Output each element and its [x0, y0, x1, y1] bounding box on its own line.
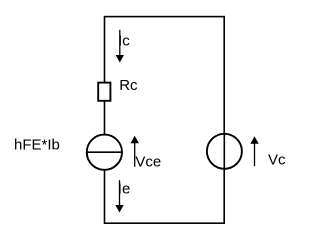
svg-text:hFE*Ib: hFE*Ib — [14, 136, 60, 153]
svg-text:Rc: Rc — [119, 77, 138, 94]
resistor Rc — [98, 83, 110, 101]
wire through Vc circle — [223, 132, 225, 171]
svg-text:Ic: Ic — [118, 32, 130, 49]
current source hFE*Ib — [87, 135, 122, 170]
current source chord — [87, 151, 122, 153]
arrow Ie — [115, 180, 123, 212]
arrow Ic — [116, 30, 124, 63]
svg-text:Vce: Vce — [135, 154, 161, 171]
arrow Vc — [250, 136, 258, 166]
arrow Vce — [131, 136, 139, 167]
svg-text:Ie: Ie — [118, 181, 131, 198]
wire loop rectangle — [105, 17, 225, 224]
svg-text:Vc: Vc — [268, 152, 286, 169]
source Vc circle — [207, 134, 242, 169]
